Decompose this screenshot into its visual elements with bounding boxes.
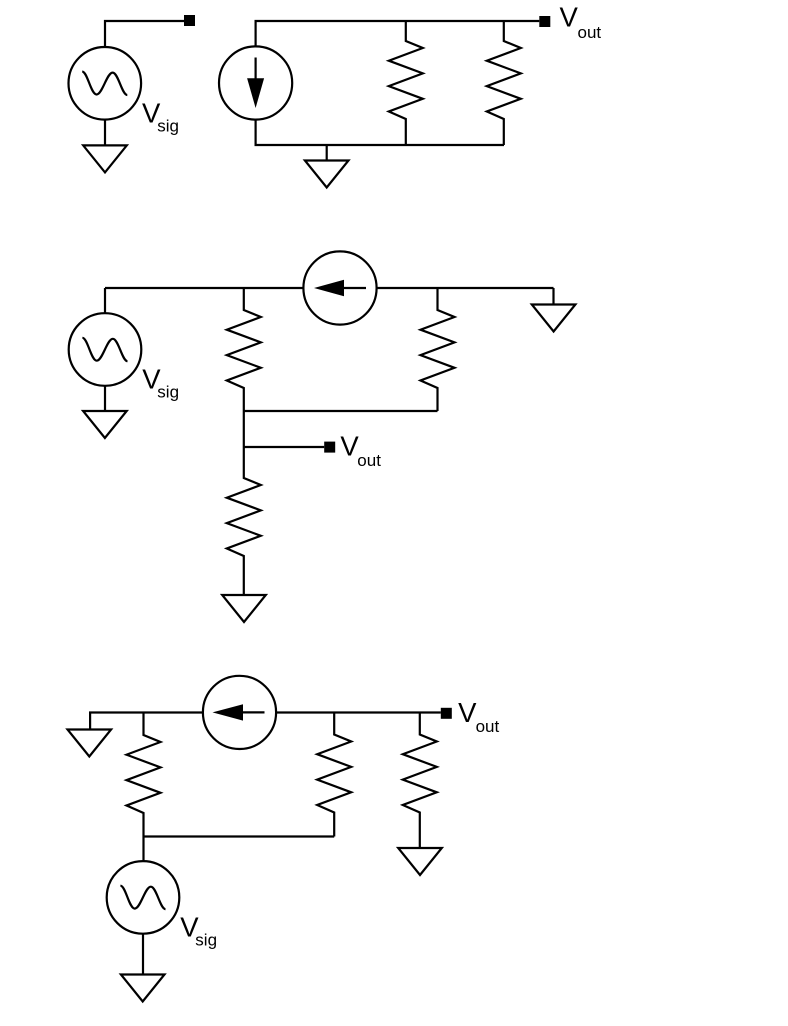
bottom rail wire (circuit 1) <box>256 120 504 145</box>
wire mid horizontal joining resistor bottoms (circuit 2) <box>244 410 438 412</box>
voltage source Vsig circle (circuit 3) <box>107 861 180 934</box>
current source arrow (circuit 1) <box>247 58 264 109</box>
label Vout (circuit 3) <box>458 697 499 736</box>
svg-text:V: V <box>560 2 579 33</box>
ground triangle right (circuit 3) <box>398 848 442 875</box>
ground triangle right (circuit 2) <box>532 305 576 332</box>
ground below Vsig (circuit 2) <box>83 411 127 438</box>
wire from Vsig top to input terminal (circuit 1) <box>105 21 184 47</box>
resistor left (circuit 2) <box>227 288 261 411</box>
ground stub at right end (circuit 2) <box>552 288 554 305</box>
svg-text:out: out <box>357 451 381 470</box>
wire Vout tap horizontal (circuit 2) <box>244 446 324 448</box>
wire down to Vout tap (circuit 2) <box>243 411 245 447</box>
output terminal square Vout (circuit 1) <box>539 16 550 27</box>
voltage source Vsig sine wave (circuit 3) <box>120 886 165 909</box>
current source arrow (circuit 2) <box>314 280 366 296</box>
resistor right (circuit 3) <box>403 713 437 849</box>
ground triangle bottom (circuit 2) <box>222 595 266 622</box>
ground triangle left (circuit 3) <box>68 730 112 757</box>
ground below Vsig (circuit 3) <box>121 975 165 1002</box>
wire bottom horizontal joining resistor bottoms (circuit 3) <box>144 835 335 837</box>
top rail right segment (circuit 3) <box>276 711 441 713</box>
svg-text:sig: sig <box>195 930 217 949</box>
label Vout (circuit 2) <box>340 431 381 471</box>
svg-text:V: V <box>458 697 477 728</box>
ground stub wire (circuit 1) <box>326 145 328 161</box>
voltage source Vsig circle (circuit 1) <box>69 47 142 120</box>
current source circle (circuit 3) <box>203 676 276 749</box>
label Vsig (circuit 2) <box>142 363 179 401</box>
svg-text:out: out <box>476 717 500 736</box>
resistor left (circuit 3) <box>127 713 161 837</box>
svg-text:sig: sig <box>157 382 179 401</box>
label Vsig (circuit 1) <box>142 97 179 135</box>
ground below Vsig (circuit 1) <box>83 145 127 172</box>
resistor right (circuit 1) <box>487 21 521 145</box>
top rail left segment (circuit 3) <box>90 713 202 730</box>
wire Vsig bottom lead (circuit 2) <box>104 386 106 411</box>
ground triangle (circuit 1) <box>305 161 349 188</box>
voltage source Vsig sine wave (circuit 2) <box>82 338 127 361</box>
wire from junction down to Vsig (circuit 3) <box>142 837 144 862</box>
wire Vsig top lead (circuit 2) <box>104 288 106 313</box>
resistor right (circuit 2) <box>421 288 455 411</box>
wire from current source top to Vout terminal (circuit 1) <box>256 21 540 46</box>
wire Vsig bottom lead (circuit 1) <box>104 119 106 145</box>
top rail left segment (circuit 2) <box>105 287 303 289</box>
current source arrow (circuit 3) <box>213 704 265 720</box>
label Vout (circuit 1) <box>560 2 602 43</box>
resistor middle (circuit 3) <box>317 713 351 837</box>
wire Vsig bottom lead (circuit 3) <box>142 934 144 975</box>
svg-text:sig: sig <box>157 117 179 136</box>
voltage source Vsig circle (circuit 2) <box>69 313 142 386</box>
resistor left (circuit 1) <box>389 21 423 145</box>
input terminal square (circuit 1) <box>184 15 195 26</box>
top rail right segment (circuit 2) <box>377 287 554 289</box>
resistor bottom (circuit 2) <box>227 447 261 595</box>
voltage source Vsig sine wave (circuit 1) <box>82 72 127 95</box>
svg-text:out: out <box>578 23 602 42</box>
output terminal square Vout (circuit 3) <box>441 708 452 719</box>
label Vsig (circuit 3) <box>180 911 217 949</box>
output terminal square Vout (circuit 2) <box>324 442 335 453</box>
current source circle (circuit 2) <box>303 251 376 324</box>
current source circle (circuit 1) <box>219 46 292 119</box>
